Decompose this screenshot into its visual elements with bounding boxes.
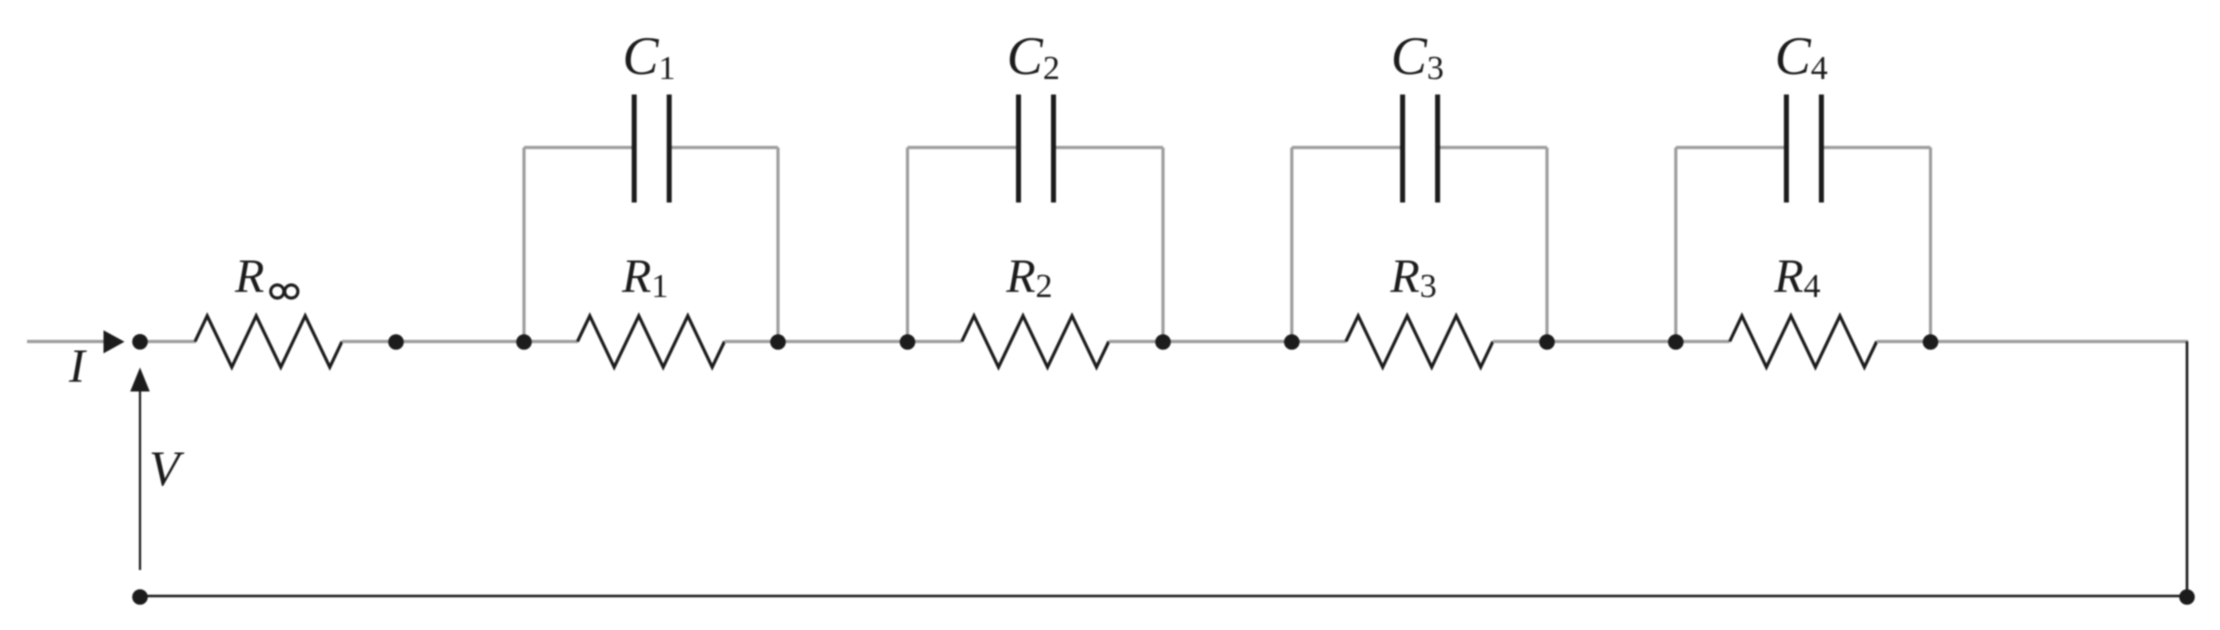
current arrow I head <box>104 330 125 353</box>
svg-text:R2: R2 <box>1005 250 1052 305</box>
resistor R2 <box>962 316 1109 367</box>
capacitor C3 <box>1403 95 1438 203</box>
svg-text:C4: C4 <box>1775 26 1828 87</box>
wire top branch pair3 left <box>1292 146 1403 149</box>
wire stub pair4 right <box>1929 148 1932 342</box>
wire top branch pair1 left <box>524 146 634 149</box>
svg-text:R4: R4 <box>1773 250 1820 305</box>
wire stub pair4 left <box>1674 148 1677 342</box>
wire stub pair2 left <box>906 148 909 342</box>
wire top branch pair2 left <box>908 146 1019 149</box>
node pair3 right <box>1539 334 1555 350</box>
svg-text:R3: R3 <box>1389 250 1436 305</box>
node bottom left <box>132 589 148 605</box>
node pair2 right <box>1155 334 1171 350</box>
svg-text:I: I <box>68 340 87 393</box>
voltage arrow V head <box>130 368 150 392</box>
wire pair2 to pair3 <box>1109 340 1346 343</box>
resistor R3 <box>1346 316 1493 367</box>
node B <box>388 334 404 350</box>
capacitor C1 <box>634 95 669 203</box>
resistor R4 <box>1730 316 1877 367</box>
node pair1 right <box>770 334 786 350</box>
svg-text:R: R <box>234 250 264 303</box>
svg-text:C1: C1 <box>623 26 676 87</box>
node pair2 left <box>900 334 916 350</box>
capacitor C4 <box>1786 95 1821 203</box>
wire stub pair1 right <box>776 148 779 342</box>
node pair3 left <box>1284 334 1300 350</box>
wire top branch pair4 right <box>1821 146 1930 149</box>
wire stub pair3 left <box>1290 148 1293 342</box>
node bottom right <box>2179 589 2195 605</box>
label R-infinity <box>234 250 298 303</box>
svg-text:V: V <box>149 440 185 496</box>
wire node A to R-inf <box>140 340 196 343</box>
svg-text:R1: R1 <box>621 250 668 305</box>
wire stub pair2 right <box>1161 148 1164 342</box>
voltage arrow V shaft <box>139 390 141 570</box>
resistor R-infinity <box>195 316 342 367</box>
resistor R1 <box>578 316 725 367</box>
node A (input node) <box>132 334 148 350</box>
wire pair3 to pair4 <box>1493 340 1730 343</box>
wire pair1 to pair2 <box>725 340 962 343</box>
wire stub pair1 left <box>522 148 525 342</box>
svg-text:C2: C2 <box>1007 26 1060 87</box>
wire stub pair3 right <box>1545 148 1548 342</box>
wire right rail <box>2186 342 2189 597</box>
svg-text:C3: C3 <box>1391 26 1444 87</box>
wire top branch pair3 right <box>1438 146 1547 149</box>
wire top branch pair4 left <box>1676 146 1787 149</box>
wire input lead <box>27 340 104 343</box>
node pair4 right <box>1923 334 1939 350</box>
wire top branch pair2 right <box>1054 146 1164 149</box>
wire top branch pair1 right <box>669 146 778 149</box>
wire pair4 to right rail <box>1877 340 2189 343</box>
capacitor C2 <box>1019 95 1054 203</box>
node pair1 left <box>516 334 532 350</box>
wire R-inf to pair1 (through node B) <box>342 340 578 343</box>
node pair4 left <box>1668 334 1684 350</box>
wire bottom rail <box>140 595 2187 598</box>
